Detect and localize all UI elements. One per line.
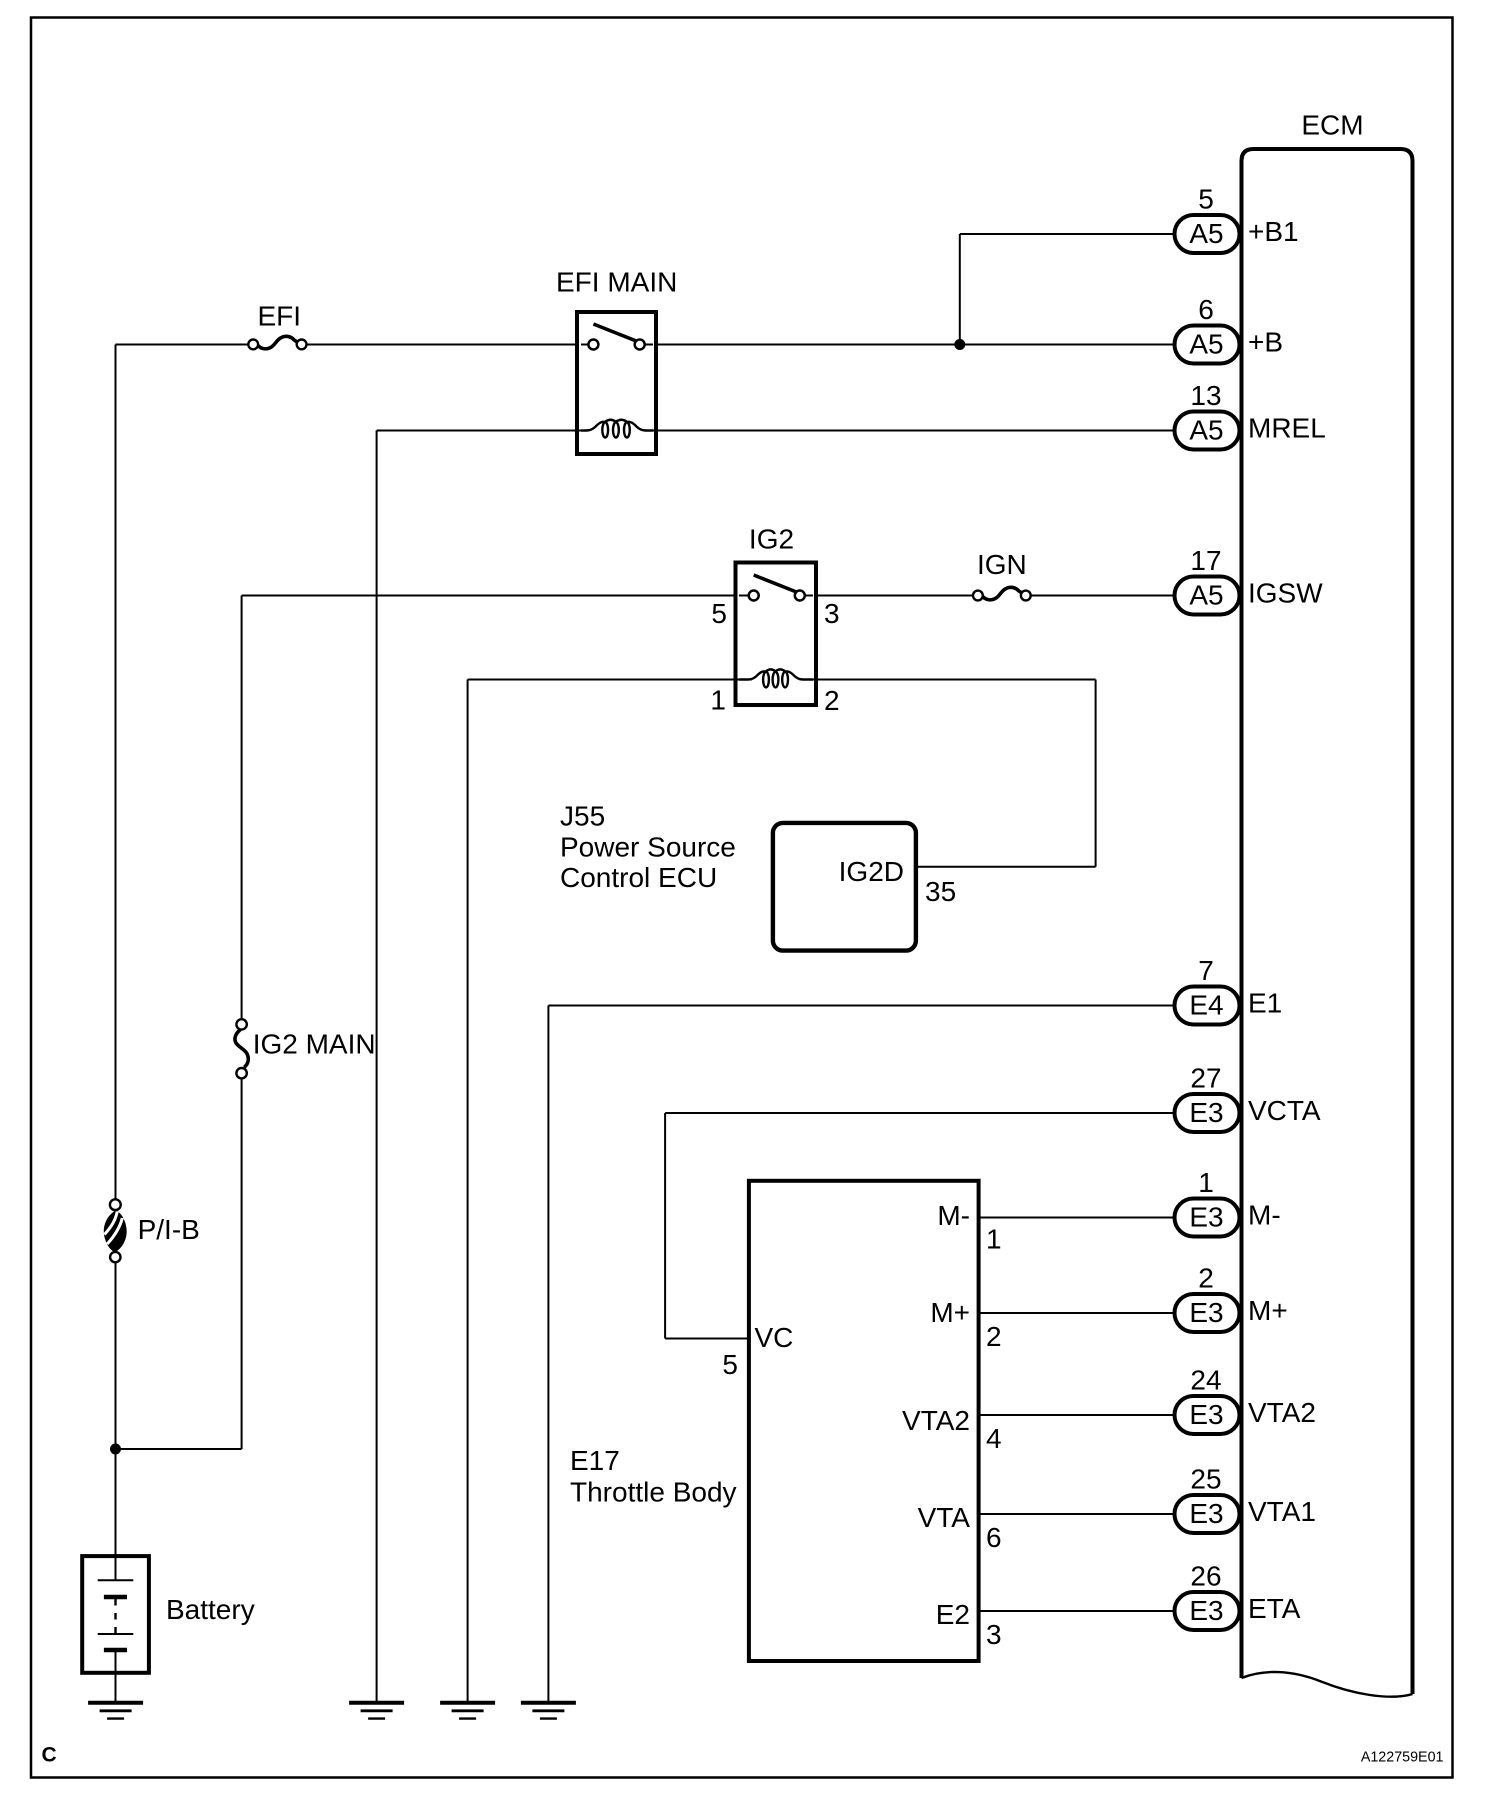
svg-text:17: 17 (1190, 545, 1221, 576)
connector pill E4 pin 7 (E1) (1175, 987, 1240, 1025)
svg-text:IGN: IGN (977, 549, 1027, 580)
wire EFI fuse to EFI MAIN relay (307, 344, 578, 346)
svg-text:Battery: Battery (166, 1594, 255, 1625)
fuse IGN (973, 587, 1031, 600)
svg-text:M+: M+ (1248, 1295, 1288, 1326)
svg-text:IG2: IG2 (749, 524, 794, 555)
connector pill A5 pin 17 (IGSW) (1175, 577, 1240, 615)
svg-text:A5: A5 (1189, 415, 1223, 446)
ECU IG2D box (J55) (773, 823, 916, 951)
svg-text:P/I-B: P/I-B (138, 1214, 200, 1245)
svg-text:MREL: MREL (1248, 413, 1326, 444)
wire MREL coil to pill (644, 430, 1176, 432)
svg-text:26: 26 (1190, 1561, 1221, 1592)
connector pill A5 pin 13 (MREL) (1175, 412, 1240, 450)
svg-text:1: 1 (1198, 1167, 1214, 1198)
svg-text:25: 25 (1190, 1464, 1221, 1495)
svg-text:3: 3 (824, 598, 840, 629)
svg-text:EFI: EFI (258, 301, 302, 332)
connector pill E3 pin 26 (ETA) (1175, 1592, 1240, 1630)
fusible link P/I-B (104, 1199, 127, 1262)
svg-text:IG2D: IG2D (839, 856, 904, 887)
svg-text:2: 2 (824, 685, 840, 716)
junction node +B (954, 339, 965, 350)
relay IG2 box (736, 563, 817, 706)
svg-text:IGSW: IGSW (1248, 578, 1323, 609)
connector pill E3 pin 25 (VTA1) (1175, 1495, 1240, 1533)
svg-text:M-: M- (1248, 1200, 1281, 1231)
svg-text:+B: +B (1248, 327, 1283, 358)
svg-text:IG2 MAIN: IG2 MAIN (253, 1029, 376, 1060)
svg-text:A5: A5 (1189, 329, 1223, 360)
ground (battery) (88, 1703, 143, 1719)
svg-text:E17: E17 (570, 1445, 620, 1476)
wire ETA row (979, 1610, 1176, 1612)
wire +B1 branch vertical (959, 234, 961, 345)
junction node battery branch (110, 1444, 121, 1455)
svg-text:VTA: VTA (918, 1502, 971, 1533)
wire VTA2 row (979, 1414, 1176, 1416)
svg-text:VCTA: VCTA (1248, 1095, 1321, 1126)
wire ground lead for IG2 coil (467, 680, 469, 1703)
svg-text:2: 2 (986, 1321, 1002, 1352)
wire E1 row (548, 1005, 1176, 1007)
svg-text:5: 5 (722, 1349, 738, 1380)
ECM torn bottom edge (1242, 1672, 1413, 1697)
fuse EFI (248, 336, 306, 349)
svg-text:24: 24 (1190, 1365, 1221, 1396)
wire IG2 pin 2 to IG2D (horizontal) (800, 679, 1096, 681)
svg-text:E3: E3 (1189, 1399, 1223, 1430)
wire MREL row (ground vertical to coil) (377, 430, 589, 432)
connector pill E3 pin 2 (M+) (1175, 1294, 1240, 1332)
wire IGN fuse to IGSW pill (1031, 595, 1176, 597)
svg-text:E3: E3 (1189, 1202, 1223, 1233)
svg-text:C: C (42, 1744, 57, 1767)
E17 Throttle Body label (570, 1445, 737, 1507)
wire EFI MAIN switch to +B pill (657, 344, 1176, 346)
svg-text:E4: E4 (1189, 990, 1223, 1021)
svg-text:A5: A5 (1189, 218, 1223, 249)
connector pill A5 pin 5 (+B1) (1175, 215, 1240, 253)
wire IG2 MAIN vertical (below fuse) (241, 1079, 243, 1450)
connector pill E3 pin 1 (M-) (1175, 1199, 1240, 1237)
svg-text:6: 6 (986, 1522, 1002, 1553)
svg-text:Power Source: Power Source (560, 831, 736, 862)
wire IG2 MAIN branch horizontal at battery junction (116, 1448, 242, 1450)
svg-text:7: 7 (1198, 955, 1214, 986)
svg-text:E3: E3 (1189, 1498, 1223, 1529)
svg-text:VTA2: VTA2 (902, 1405, 970, 1436)
ground (IG2 coil) (440, 1703, 495, 1719)
svg-text:5: 5 (711, 598, 727, 629)
svg-text:4: 4 (986, 1423, 1002, 1454)
wire battery positive vertical (battery to EFI row) (115, 345, 117, 1559)
throttle body box E17 (749, 1181, 979, 1661)
J55 Power Source Control ECU label (560, 801, 736, 893)
svg-text:2: 2 (1198, 1263, 1214, 1294)
battery (82, 1556, 149, 1702)
wire M+ row (979, 1312, 1176, 1314)
svg-text:VTA1: VTA1 (1248, 1496, 1316, 1527)
ECM box U1 (1242, 149, 1413, 1694)
svg-text:E3: E3 (1189, 1097, 1223, 1128)
svg-text:27: 27 (1190, 1063, 1221, 1094)
EFI MAIN coil (581, 420, 653, 438)
wire VCTA vertical to VC (664, 1113, 666, 1339)
svg-text:E1: E1 (1248, 988, 1282, 1019)
wire ground lead for E1 (547, 1006, 549, 1703)
svg-text:J55: J55 (560, 801, 605, 832)
svg-text:M+: M+ (930, 1297, 970, 1328)
svg-text:E3: E3 (1189, 1595, 1223, 1626)
IG2 switch contacts and blade (739, 575, 813, 601)
connector pill A5 pin 6 (+B) (1175, 326, 1240, 364)
svg-text:E2: E2 (936, 1599, 970, 1630)
wire VCTA row (665, 1112, 1176, 1114)
wire VC pin (665, 1338, 750, 1340)
ground (EFI MAIN coil) (349, 1703, 404, 1719)
svg-text:1: 1 (710, 685, 726, 716)
wire VTA1 row (979, 1513, 1176, 1515)
svg-text:13: 13 (1190, 380, 1221, 411)
EFI MAIN switch contacts and blade (581, 324, 653, 350)
svg-text:Control ECU: Control ECU (560, 862, 717, 893)
svg-text:Throttle Body: Throttle Body (570, 1476, 737, 1507)
svg-text:A122759E01: A122759E01 (1361, 1750, 1444, 1766)
ground (E1) (521, 1703, 576, 1719)
relay EFI MAIN box (577, 312, 656, 454)
svg-text:1: 1 (986, 1224, 1002, 1255)
wire IG2 coil pin1 to ground vertical (468, 679, 752, 681)
fuse IG2 MAIN (235, 1019, 248, 1078)
svg-text:ECM: ECM (1301, 110, 1363, 141)
wire IG2 pin 2 to IG2D (vertical) (1095, 680, 1097, 867)
wire IG2D pin 35 (916, 866, 1096, 868)
svg-text:E3: E3 (1189, 1297, 1223, 1328)
wire M- row (979, 1217, 1176, 1219)
svg-text:ETA: ETA (1248, 1593, 1301, 1624)
svg-text:35: 35 (925, 876, 956, 907)
svg-text:M-: M- (937, 1200, 970, 1231)
svg-text:VTA2: VTA2 (1248, 1397, 1316, 1428)
svg-text:3: 3 (986, 1619, 1002, 1650)
IG2 coil (739, 669, 813, 687)
wire EFI row to fuse (116, 344, 249, 346)
wire ground lead for EFI MAIN coil (376, 431, 378, 1703)
svg-text:6: 6 (1198, 294, 1214, 325)
connector pill E3 pin 27 (VCTA) (1175, 1094, 1240, 1132)
connector pill E3 pin 24 (VTA2) (1175, 1396, 1240, 1434)
svg-text:+B1: +B1 (1248, 216, 1299, 247)
svg-text:VC: VC (755, 1322, 794, 1353)
svg-text:5: 5 (1198, 184, 1214, 215)
svg-text:A5: A5 (1189, 580, 1223, 611)
wire IG2 MAIN vertical (above fuse) (241, 596, 243, 1020)
svg-text:EFI MAIN: EFI MAIN (556, 267, 677, 298)
wire IG2 switch to IGN fuse (816, 595, 973, 597)
wire IGSW row (branch to IG2 relay) (242, 595, 736, 597)
wire +B1 branch horizontal (960, 233, 1176, 235)
